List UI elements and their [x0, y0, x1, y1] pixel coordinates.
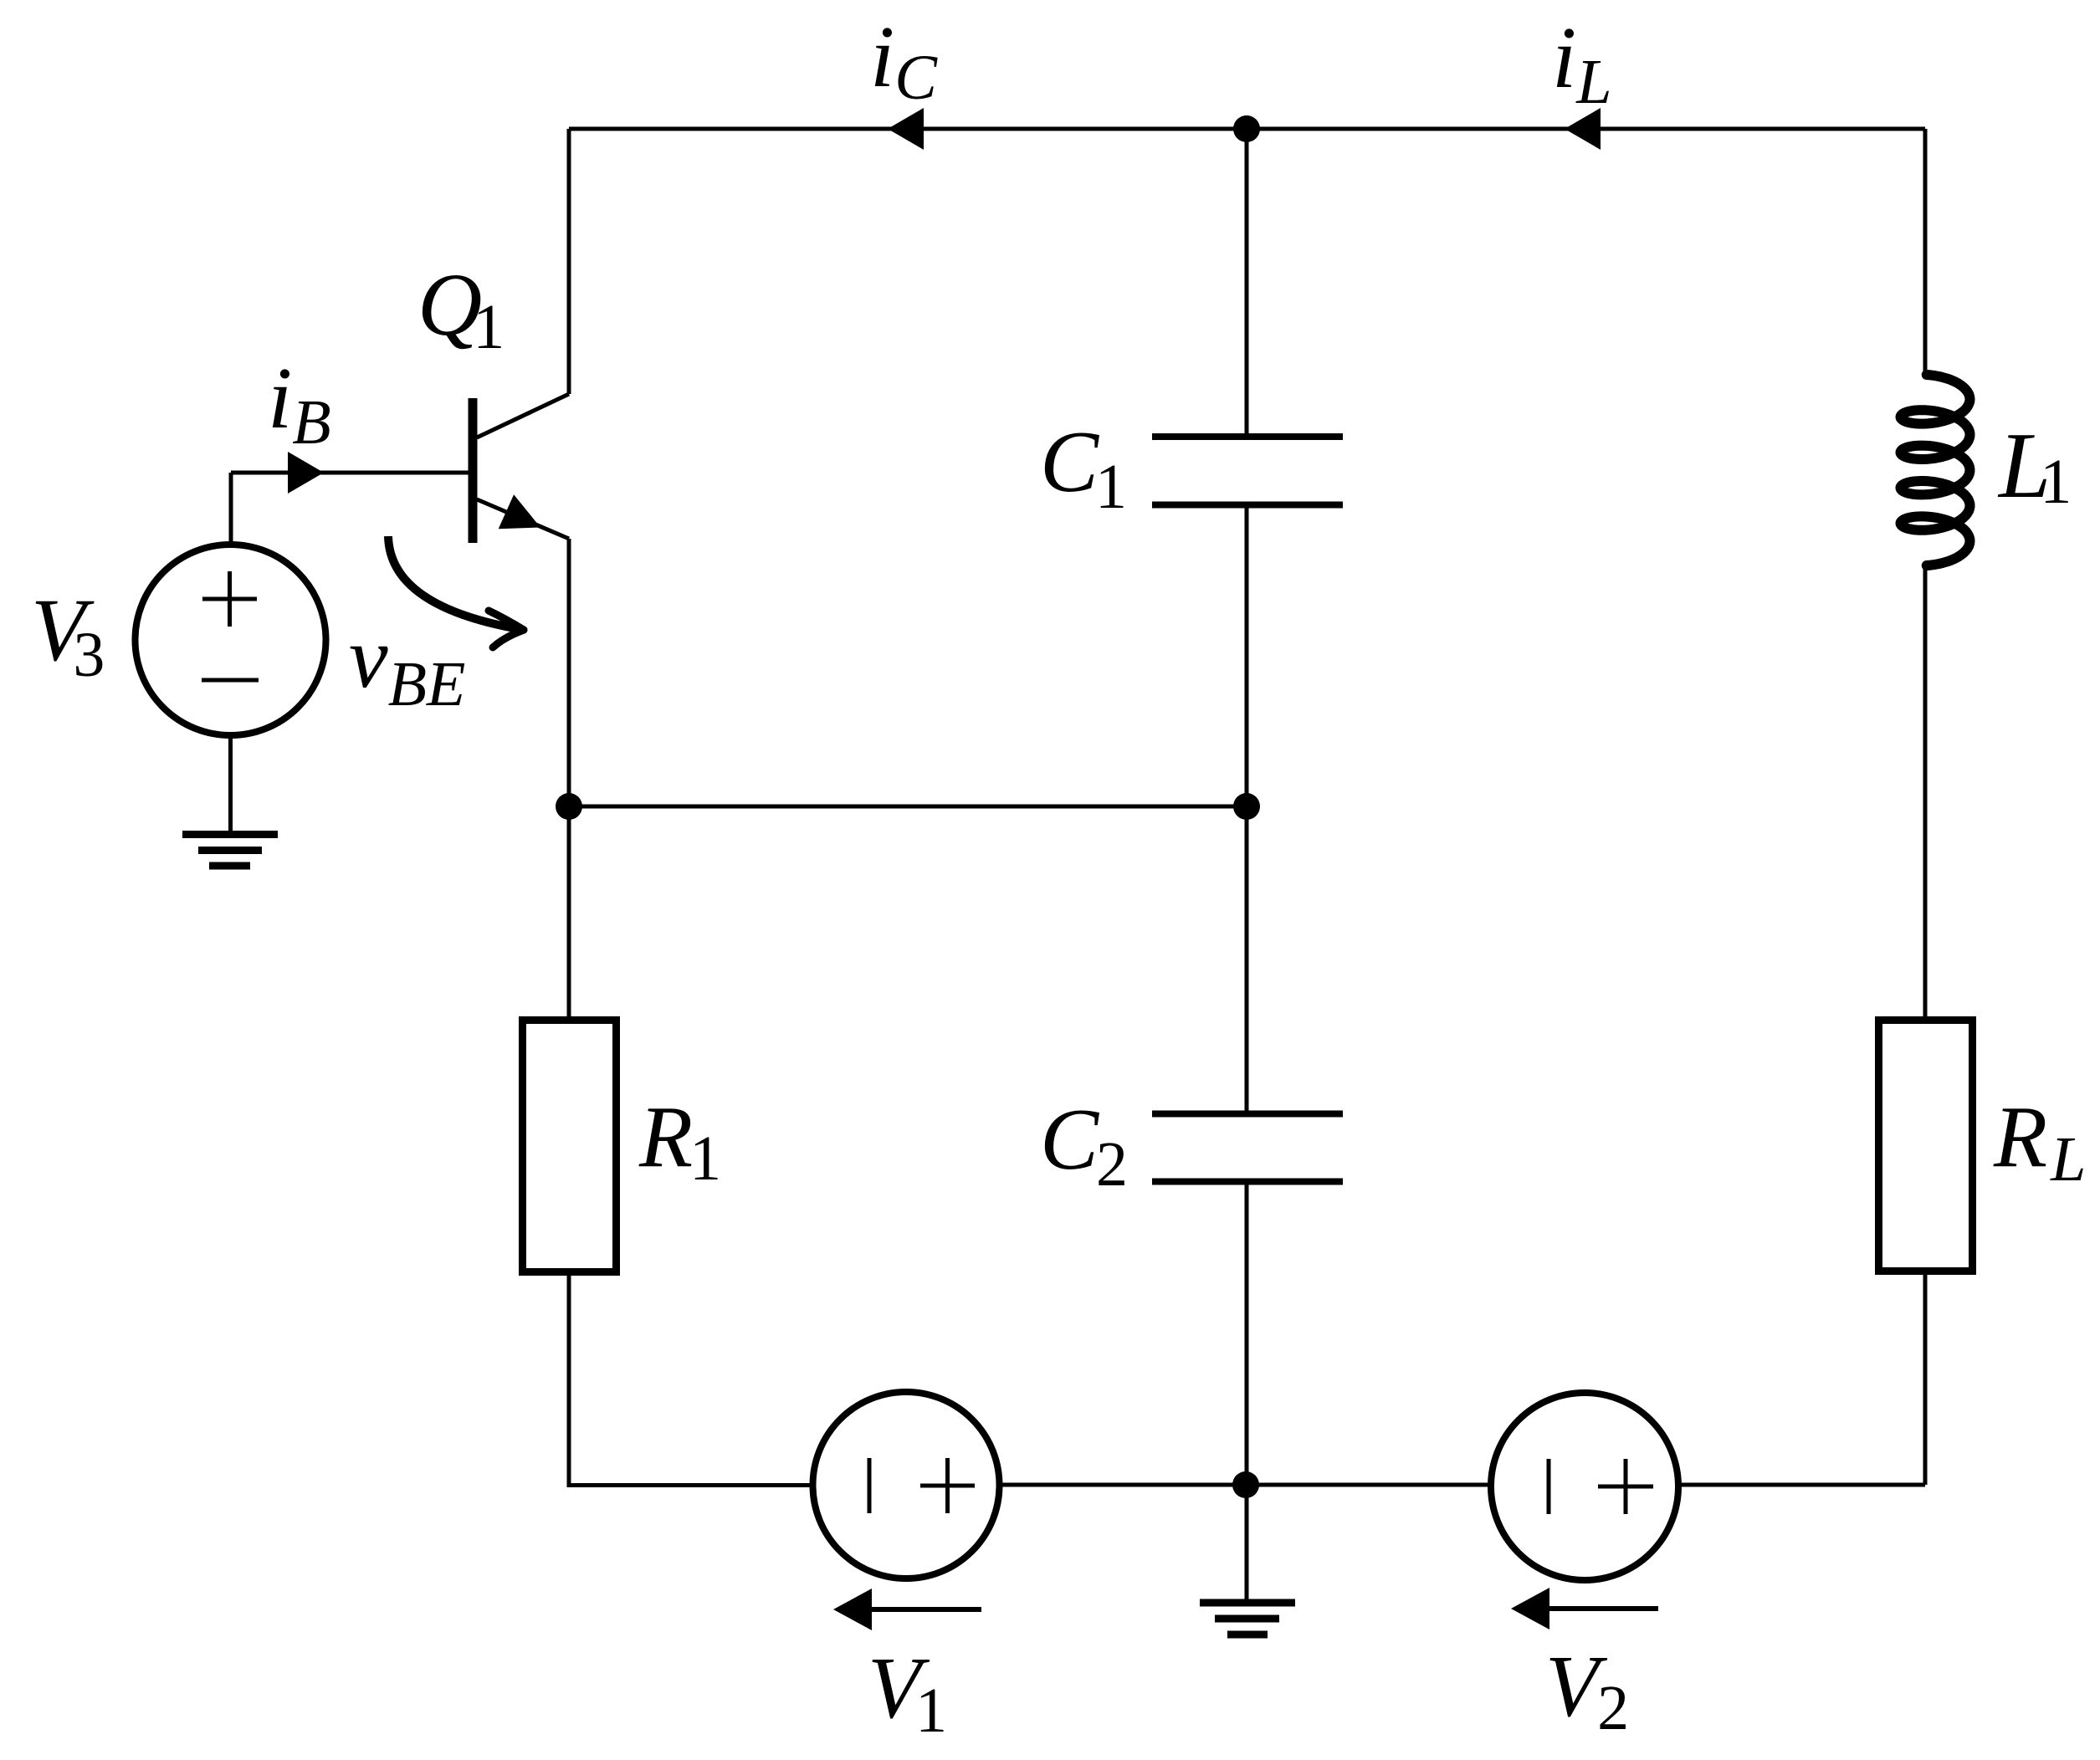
- ground below V3: [182, 835, 278, 867]
- V1 minus bar: [868, 1458, 872, 1513]
- node dot collector top junction: [1233, 115, 1260, 142]
- ground below bottom rail node: [1200, 1603, 1295, 1635]
- wire middle horizontal emitter node to node B: [569, 805, 1247, 809]
- V3 plus sign: [202, 571, 257, 627]
- V3 minus sign: [202, 678, 259, 683]
- voltage source V2: [1491, 1393, 1678, 1580]
- V2 minus bar: [1547, 1459, 1551, 1514]
- wire V3 top lead: [229, 473, 233, 545]
- capacitor C1: [1152, 437, 1343, 505]
- Q1 collector diagonal: [477, 394, 569, 437]
- capacitor C2: [1152, 1114, 1343, 1182]
- wire bottom rail V1 to V2: [1000, 1483, 1491, 1487]
- wire emitter riser down to R1: [567, 539, 571, 1016]
- wire top rail collector to right column: [569, 127, 1925, 131]
- Q1 emitter arrowhead: [499, 494, 540, 529]
- voltage source V3: [136, 545, 326, 735]
- wire L1 to RL: [1923, 563, 1928, 1016]
- V1 circle: [813, 1392, 1000, 1578]
- transistor Q1: [473, 394, 569, 543]
- wire base horizontal from V3 to Q1 base: [231, 471, 469, 475]
- wire C2 bottom to bottom rail: [1245, 1184, 1249, 1485]
- wire V3 bottom lead to ground: [228, 735, 233, 831]
- V3 circle: [136, 545, 326, 735]
- node dot capacitor middle junction: [1233, 793, 1260, 820]
- Q1 emitter diagonal: [477, 499, 569, 539]
- wire C1 to C2 through node B: [1245, 508, 1249, 1111]
- arrow iL on top rail: [1565, 108, 1601, 150]
- node dot bottom rail junction: [1232, 1471, 1259, 1498]
- wire RL bottom to bottom rail corner: [1923, 1275, 1928, 1485]
- node dot emitter middle junction: [556, 793, 582, 820]
- arrow iB on base wire: [288, 452, 324, 494]
- wire right column top to L1: [1923, 129, 1928, 376]
- Q1 base bar: [469, 398, 478, 543]
- wire bottom ground stem: [1245, 1485, 1249, 1599]
- wire collector riser: [567, 129, 571, 394]
- inductor L1: [1901, 375, 1970, 565]
- V2 plus sign: [1598, 1459, 1653, 1514]
- resistor R1: [523, 1021, 617, 1272]
- V2 circle: [1491, 1393, 1678, 1580]
- arrow V1 reference: [833, 1589, 981, 1630]
- wire bottom rail V2 to right corner: [1678, 1483, 1925, 1487]
- wire middle column top to C1: [1245, 129, 1249, 433]
- arrow V2 reference: [1511, 1588, 1658, 1630]
- arrow iC on top rail: [888, 108, 924, 150]
- voltage source V1: [813, 1392, 1000, 1578]
- resistor RL: [1879, 1021, 1973, 1271]
- arrow vBE curved: [388, 536, 524, 647]
- V1 plus sign: [920, 1458, 975, 1513]
- wire R1 bottom to bottom rail corner: [569, 1276, 812, 1486]
